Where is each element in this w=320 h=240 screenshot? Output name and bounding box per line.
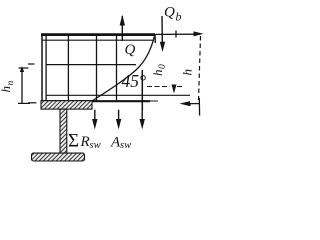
beam bottom edge thin tail (150, 100, 158, 102)
h dimension dashed line (199, 36, 201, 100)
svg-text:n: n (6, 81, 16, 86)
beam bottom edge (42, 100, 150, 102)
svg-text:sw: sw (120, 140, 131, 151)
hn top tick (19, 67, 29, 69)
beam top inner line (42, 39, 154, 41)
label hn rotated (0, 81, 16, 93)
hn bottom left outside dash (28, 102, 36, 104)
svg-text:0: 0 (158, 64, 168, 69)
beam left outer edge (41, 33, 43, 103)
top dimension right arrowhead (194, 31, 204, 36)
svg-text:Σ: Σ (68, 130, 79, 151)
stirrup arrow 1 (94, 110, 96, 126)
mesh vertical bar 3 (116, 36, 118, 102)
steel support top flange (41, 101, 92, 109)
beam right edge (141, 70, 143, 111)
svg-text:R: R (80, 134, 90, 150)
svg-text:h: h (150, 70, 165, 77)
stirrup arrow 3 (141, 111, 143, 126)
hn dimension line (21, 68, 23, 105)
h0 leader tail (177, 86, 182, 88)
upward reaction arrow (121, 16, 123, 41)
h0 down arrow (173, 85, 175, 89)
small tick on dimension line (h0 top mark) (175, 31, 177, 38)
h bottom small dash (187, 104, 192, 106)
stirrup arrow 2 (118, 110, 120, 126)
h0 dashed leader (147, 86, 170, 88)
svg-text:h: h (0, 86, 13, 93)
svg-text:b: b (176, 10, 182, 24)
top dimension line (156, 33, 201, 35)
h dimension bottom overshoot (198, 98, 200, 116)
mesh upper left outside dash (28, 63, 35, 65)
svg-text:Q: Q (164, 4, 175, 20)
svg-text:sw: sw (90, 140, 101, 151)
h bottom reference arrow pointing left (183, 103, 200, 105)
svg-text:45°: 45° (122, 71, 147, 91)
top chord right end tick (154, 34, 156, 43)
mesh horizontal bar upper (46, 64, 136, 66)
beam left inner edge (45, 34, 47, 102)
steel support web (60, 109, 67, 153)
beam top chord thick line (41, 33, 155, 36)
svg-text:Q: Q (125, 42, 136, 58)
inclined 45-degree crack (84, 37, 154, 107)
hn top arrowhead (20, 66, 24, 72)
mesh vertical bar 2 (96, 36, 98, 102)
hn bottom tick (18, 102, 30, 104)
svg-text:h: h (180, 69, 195, 76)
steel support bottom flange (32, 153, 85, 161)
mesh horizontal bar lower / h0 reference line (46, 94, 190, 96)
force Qb down arrow (161, 16, 163, 48)
label h0 rotated (150, 64, 168, 76)
mesh vertical bar 1 (67, 36, 69, 102)
